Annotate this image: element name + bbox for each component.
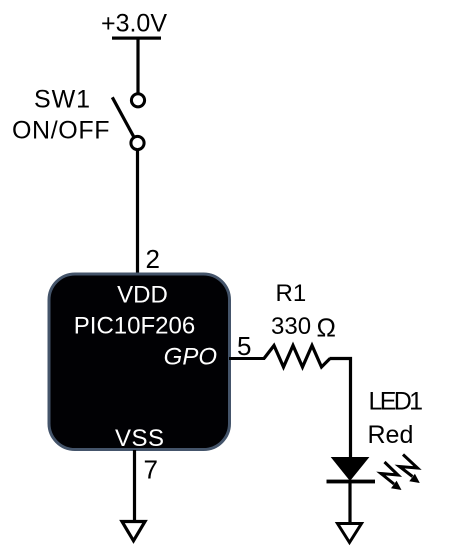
switch SW1 blade bbox=[112, 97, 133, 136]
resistor R1 zigzag bbox=[264, 346, 330, 368]
wire VSS pin to ground bbox=[133, 450, 136, 520]
wire power bar to switch bbox=[136, 38, 139, 94]
svg-text:+3.0V: +3.0V bbox=[101, 10, 167, 38]
ground right bbox=[338, 524, 362, 543]
svg-text:7: 7 bbox=[144, 455, 158, 485]
svg-text:5: 5 bbox=[237, 331, 251, 361]
wire resistor to LED corner bbox=[330, 359, 351, 458]
LED1 cathode bar bbox=[327, 480, 376, 484]
wire switch to VDD pin bbox=[136, 151, 139, 274]
svg-text:330: 330 bbox=[271, 313, 311, 340]
svg-text:LED1: LED1 bbox=[369, 388, 424, 416]
wire LED to ground bbox=[348, 482, 351, 523]
svg-text:2: 2 bbox=[146, 244, 160, 274]
svg-text:VDD: VDD bbox=[117, 282, 168, 309]
LED1 light arrow right bbox=[400, 455, 420, 484]
svg-text:Red: Red bbox=[368, 421, 414, 449]
power supply bar bbox=[112, 37, 161, 40]
svg-text:R1: R1 bbox=[276, 280, 307, 307]
svg-text:PIC10F206: PIC10F206 bbox=[74, 313, 195, 340]
svg-text:Ω: Ω bbox=[317, 313, 336, 343]
op IC U1 PIC10F206 body bbox=[49, 274, 230, 450]
svg-text:SW1: SW1 bbox=[34, 86, 90, 114]
svg-text:VSS: VSS bbox=[115, 425, 164, 452]
svg-text:ON/OFF: ON/OFF bbox=[12, 117, 110, 145]
switch SW1 top contact circle bbox=[131, 94, 144, 107]
LED1 diode triangle bbox=[331, 457, 370, 481]
switch SW1 bottom contact circle bbox=[131, 136, 144, 149]
wire GPO pin to resistor bbox=[229, 357, 265, 360]
LED1 light arrow left bbox=[381, 462, 402, 490]
ground left bbox=[122, 522, 145, 541]
svg-text:GPO: GPO bbox=[164, 344, 217, 371]
